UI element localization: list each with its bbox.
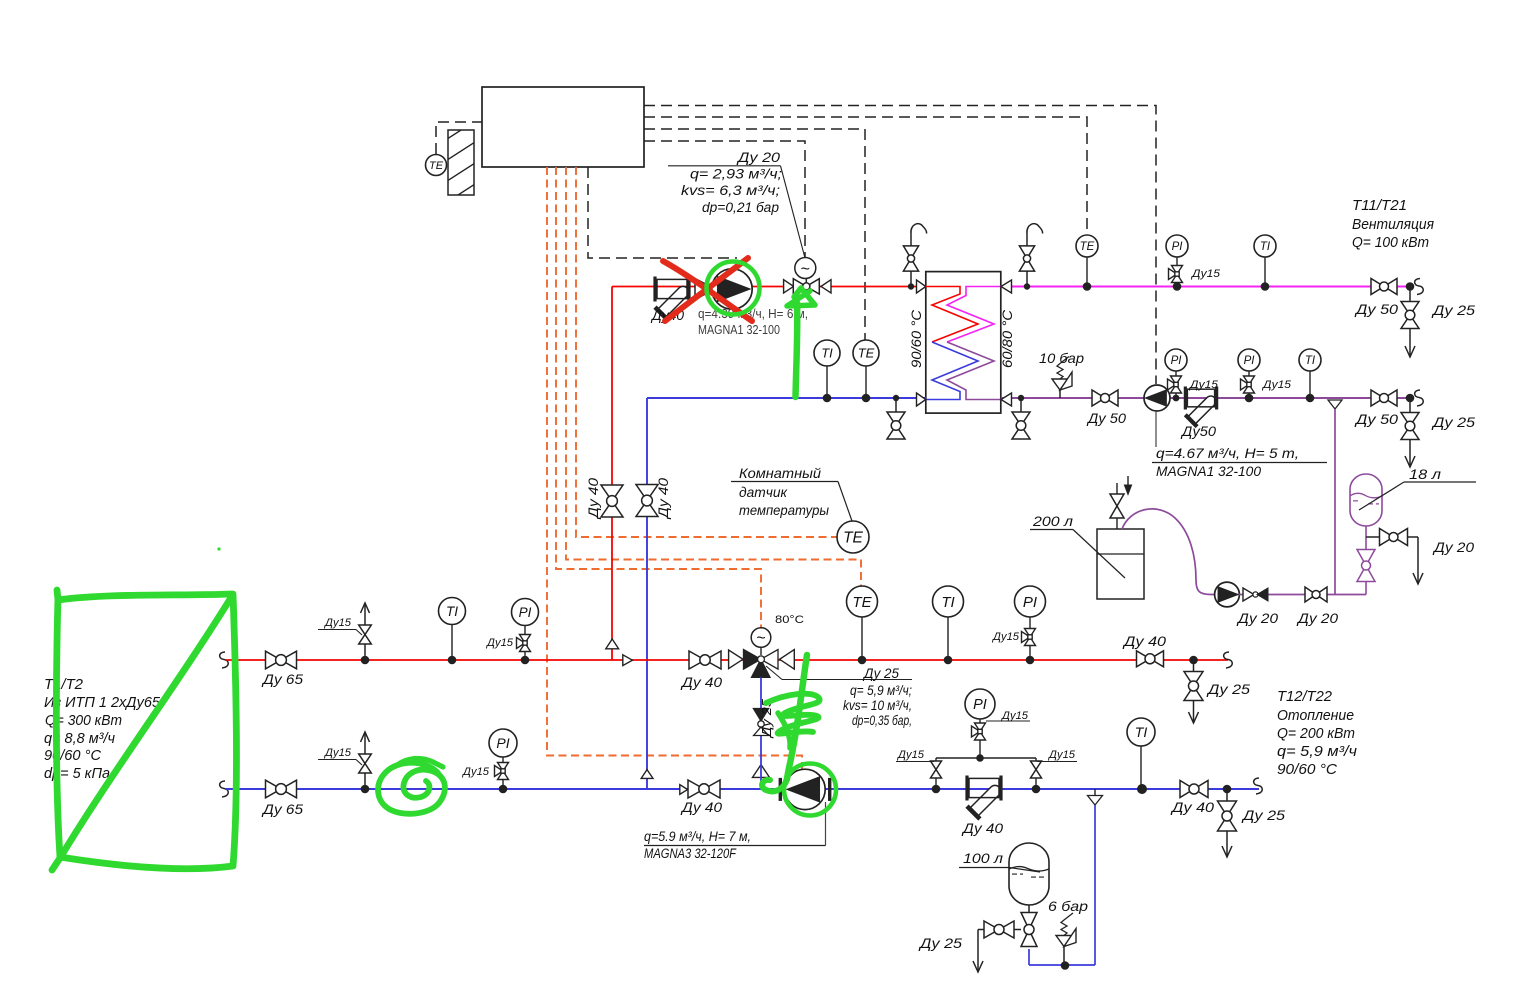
label kvs=6,3 (681, 183, 780, 198)
node PI blue (499, 785, 508, 794)
svg-text:q=4.67 м³/ч, H= 5 m,: q=4.67 м³/ч, H= 5 m, (1156, 445, 1299, 461)
label Du20 vessel drain (1432, 539, 1474, 555)
TI heating (933, 586, 964, 660)
label Du40 red right (1122, 633, 1167, 649)
control wire to vent TE (644, 117, 1087, 234)
svg-text:100 л: 100 л (963, 850, 1003, 866)
flow triangle blue riser (641, 770, 653, 779)
label Du40 blue riser (656, 477, 671, 520)
svg-text:Т1/Т2: Т1/Т2 (44, 676, 84, 693)
control wire to pump MAGNA1 (588, 167, 737, 258)
valve Du40 red riser (601, 485, 623, 517)
HX label 90/60 (909, 310, 924, 368)
annotation green scribble at 3way drop (762, 655, 820, 791)
node red end (1189, 656, 1198, 665)
room sensor TE (837, 521, 869, 553)
svg-text:PI: PI (496, 735, 509, 751)
svg-text:18 л: 18 л (1409, 466, 1441, 482)
svg-text:Ду 40: Ду 40 (656, 477, 671, 520)
strainer Du40 (crossed out) (655, 277, 689, 321)
svg-text:Ду 20: Ду 20 (736, 149, 781, 165)
vent Du15 blue (359, 732, 372, 789)
svg-text:Т12/Т22: Т12/Т22 (1277, 689, 1332, 705)
blue return riser (646, 398, 648, 789)
label Du40 (650, 308, 685, 323)
label MAGNA3 (644, 829, 826, 861)
control wire to return TE (644, 129, 865, 340)
svg-text:Из ИТП 1 2хДу65: Из ИТП 1 2хДу65 (44, 694, 161, 711)
node PI magenta (1173, 282, 1182, 291)
label Du40 strainer (961, 820, 1003, 836)
label Du20 makeup (1296, 610, 1338, 626)
label Du20 leader (668, 166, 805, 258)
two-way control valve Du20 (793, 279, 819, 294)
pump MAGNA1 vent return (1144, 385, 1170, 411)
label dp=0,21 (702, 200, 779, 215)
valve Du50 magenta (1371, 279, 1397, 295)
label Du15 PI heating (991, 631, 1020, 643)
label Du15 magenta PI (1190, 268, 1221, 280)
3way drop pipe (760, 677, 762, 789)
label T1/T2 block (44, 676, 161, 782)
drain riser blue (1094, 805, 1096, 965)
node red HX inlet (908, 283, 914, 289)
valve Du20 make-up (1305, 587, 1327, 602)
svg-text:~: ~ (756, 630, 765, 647)
svg-text:Ду 50: Ду 50 (1354, 301, 1399, 317)
svg-text:Ду 40: Ду 40 (680, 674, 722, 690)
svg-text:Ду 40: Ду 40 (586, 477, 601, 520)
svg-text:kvs= 6,3 м³/ч;: kvs= 6,3 м³/ч; (681, 183, 780, 198)
valve Du65 red (266, 651, 297, 669)
drain bottom pipe (1029, 964, 1095, 966)
label Du15 DP left (896, 749, 934, 762)
node TI magenta (1261, 282, 1270, 291)
expansion vessel 100l (1009, 843, 1049, 905)
svg-text:Ду15: Ду15 (1188, 379, 1219, 391)
svg-text:Ду 50: Ду 50 (1086, 411, 1127, 426)
svg-text:Ду 40: Ду 40 (1170, 799, 1215, 815)
outdoor temperature sensor TE (426, 155, 447, 176)
outdoor sensor wall bracket (hatched) (430, 114, 486, 234)
make-up riser purple (1334, 409, 1336, 595)
svg-text:Ду 50: Ду 50 (1354, 411, 1399, 427)
PI1 purple gauge (1165, 349, 1187, 398)
label Du65 blue (261, 801, 303, 817)
label 80C (775, 614, 804, 626)
label Du40 red riser (586, 477, 601, 520)
safety valve 10 bar (1052, 357, 1072, 399)
node TI blue right (1137, 784, 1147, 794)
pipe break red end (1224, 652, 1233, 668)
pump MAGNA3 leader (825, 802, 827, 846)
label Du15 PI1 purple (1188, 379, 1219, 391)
PI red left (512, 599, 539, 661)
HX secondary coil purple (947, 342, 1001, 400)
valve Du40 red right (1137, 651, 1164, 667)
svg-text:dp=0,35 бар,: dp=0,35 бар, (852, 713, 912, 728)
svg-text:Ду15: Ду15 (485, 637, 514, 649)
svg-text:Ду 25: Ду 25 (862, 666, 899, 681)
vent PI gauge (1166, 235, 1188, 287)
svg-text:PI: PI (1244, 355, 1256, 367)
label Du25 drop (759, 698, 774, 739)
signal wire 3 (3-way actuator) (556, 167, 761, 629)
label Du25 magenta drain (1431, 302, 1476, 318)
node DP left (932, 785, 941, 794)
heat exchanger body (926, 272, 1001, 414)
blue return pipe to HX (647, 397, 926, 399)
svg-text:TI: TI (821, 346, 833, 361)
annotation green blob on blue main (378, 759, 445, 814)
pump leader line (1155, 411, 1157, 447)
svg-text:Ду15: Ду15 (1190, 268, 1221, 280)
svg-text:10 бар: 10 бар (1039, 350, 1084, 366)
valve vertical at 18l (1357, 550, 1375, 582)
svg-text:MAGNA1 32-100: MAGNA1 32-100 (1156, 463, 1261, 479)
tank riser (1028, 949, 1030, 965)
valve Du40 blue riser (636, 485, 658, 517)
svg-text:q= 5,9 м³/ч: q= 5,9 м³/ч (1277, 744, 1358, 760)
pump MAGNA1 supply (crossed out) (712, 269, 752, 309)
signal wire 1 (room TE) (576, 167, 838, 537)
node TI purple (1306, 394, 1315, 403)
node TI red left (448, 656, 457, 665)
node magenta end (1406, 282, 1415, 291)
PI DP gauge (965, 689, 995, 758)
svg-text:PI: PI (1172, 241, 1184, 253)
pipe break red inlet (220, 652, 229, 668)
PI2 purple gauge (1238, 349, 1260, 398)
flow triangle into HX (red) (917, 280, 926, 293)
vessel drain branch (1366, 536, 1379, 538)
svg-text:TE: TE (1080, 241, 1095, 253)
label 6 bar (1048, 898, 1088, 914)
svg-text:Ду 25: Ду 25 (1431, 302, 1476, 318)
label T11/T21 (1352, 198, 1434, 251)
svg-text:TI: TI (941, 594, 954, 611)
vessel 100l stub (1028, 904, 1030, 913)
label Du40 blue right (1170, 799, 1215, 815)
svg-text:TE: TE (429, 160, 444, 172)
svg-text:Q= 200 кВт: Q= 200 кВт (1277, 726, 1355, 742)
svg-text:Комнатный: Комнатный (739, 465, 821, 481)
svg-text:Ду15: Ду15 (1047, 749, 1076, 761)
label Du25 3way (862, 666, 899, 681)
three-way valve body (744, 650, 779, 678)
annotation red X over pump (663, 258, 752, 321)
flow triangle after 3way (780, 650, 795, 670)
label Du50 magenta (1354, 301, 1399, 317)
pump MAGNA3 (780, 769, 829, 809)
DP left tap (931, 758, 942, 789)
label Du15 PI2 purple (1261, 379, 1292, 391)
make-up funnel on purple (1328, 400, 1342, 409)
vent Du15 red (359, 603, 372, 660)
svg-text:Т11/Т21: Т11/Т21 (1352, 198, 1407, 214)
label Du15 DP right (1037, 749, 1077, 762)
make-up pipe (1239, 594, 1366, 596)
annotation green speck (217, 547, 220, 550)
valve actuator (795, 258, 816, 279)
label Du40 red heating (680, 674, 722, 690)
svg-text:Ду50: Ду50 (1180, 423, 1216, 439)
svg-text:датчик: датчик (739, 484, 788, 500)
svg-text:Ду 20: Ду 20 (1432, 539, 1474, 555)
vessel drain outlet (1408, 537, 1424, 584)
make-up pump (1215, 582, 1240, 607)
node PI red (1026, 656, 1035, 665)
svg-text:PI: PI (1023, 594, 1037, 611)
node vent blue left (361, 785, 370, 794)
label Du25 tank drain (918, 935, 963, 951)
drain Du25 red right (1184, 660, 1203, 723)
node blue end (1223, 785, 1232, 794)
flow triangle out of HX (magenta) (1001, 280, 1012, 293)
svg-text:Ду 25: Ду 25 (1431, 414, 1476, 430)
DP manifold line (936, 754, 1036, 762)
svg-text:Ду15: Ду15 (461, 766, 490, 778)
TE heating sensor (847, 586, 878, 660)
TI purple gauge (1299, 349, 1321, 398)
TI red left (439, 598, 466, 661)
svg-text:80°С: 80°С (775, 614, 804, 626)
svg-text:200 л: 200 л (1032, 513, 1073, 529)
magenta vent supply pipe (1001, 286, 1410, 288)
label q=5,9 (850, 683, 912, 698)
label Du25 red right (1206, 681, 1251, 697)
control wire to valve actuator (644, 141, 805, 258)
svg-text:6 бар: 6 бар (1048, 898, 1088, 914)
label q=2,93 (690, 167, 782, 182)
red heating main (225, 659, 1228, 661)
DP right tap (1031, 758, 1042, 789)
drain Du25 blue right (1218, 789, 1237, 857)
HX secondary coil magenta (947, 287, 1001, 343)
svg-text:PI: PI (519, 605, 532, 620)
check triangle before pump (695, 279, 715, 300)
label Du25 blue right (1241, 807, 1286, 823)
flow triangle before control valve (784, 280, 794, 293)
svg-text:Ду15: Ду15 (323, 747, 352, 759)
pipe break blue end (1254, 778, 1263, 794)
signal wire 4 (pump MAGNA3) (547, 167, 802, 770)
label Du50 strainer (1180, 423, 1216, 439)
valve Du50 purple end (1371, 390, 1397, 406)
HX label 60/80 (1000, 310, 1015, 368)
flow triangle after control valve (821, 280, 831, 293)
node PI1 purple (1173, 395, 1180, 402)
controller unit (482, 87, 644, 167)
svg-text:Q= 100 кВт: Q= 100 кВт (1352, 235, 1429, 251)
pipe break blue inlet (220, 781, 229, 797)
svg-text:Ду15: Ду15 (323, 617, 352, 629)
label kvs=10 (843, 698, 912, 713)
flow triangle before Du40 blue (680, 785, 688, 795)
check valve Du20 (1243, 588, 1268, 601)
control wire to vent pump (644, 106, 1156, 385)
label Du20 check (1236, 610, 1278, 626)
label q=4.67 (1152, 445, 1327, 479)
tank 200l (1097, 529, 1144, 599)
node TE magenta (1083, 282, 1092, 291)
drain valve blue HX (887, 398, 905, 439)
TE on blue return (853, 340, 879, 398)
drain Du25 purple (1401, 398, 1419, 467)
svg-text:Отопление: Отопление (1277, 708, 1354, 724)
node vent red left (361, 656, 370, 665)
node drain blue (893, 395, 899, 401)
make-up inlet valve (1110, 483, 1124, 529)
valve Du40 blue right (1180, 781, 1208, 798)
wire TE to controller (436, 122, 482, 154)
svg-text:PI: PI (1171, 355, 1183, 367)
vent TE sensor (1076, 235, 1098, 287)
svg-text:kvs= 10 м³/ч,: kvs= 10 м³/ч, (843, 698, 912, 713)
valve Du65 blue (266, 780, 297, 798)
red supply riser (611, 287, 613, 661)
label Du15 vent red (318, 617, 362, 635)
drain Du25 magenta (1401, 287, 1419, 358)
valve Du20 vessel drain (1380, 529, 1408, 546)
node PI red left (521, 656, 530, 665)
svg-text:TI: TI (1135, 724, 1148, 740)
svg-text:~: ~ (801, 261, 810, 278)
air vent on red before HX (903, 224, 926, 287)
expansion vessel 18l (1350, 474, 1382, 526)
valve Du40 red heating (689, 651, 721, 669)
signal wire 2 (heating TE) (566, 167, 861, 587)
node TE blue (862, 394, 871, 403)
label Du65 red (261, 671, 303, 687)
svg-text:Ду 65: Ду 65 (261, 671, 303, 687)
purple vent return pipe (1001, 397, 1410, 399)
label Du25 3way leader (766, 666, 912, 680)
safety valve 6 bar (1056, 913, 1076, 966)
svg-text:TI: TI (446, 604, 458, 619)
svg-text:dp=0,21 бар: dp=0,21 бар (702, 200, 779, 215)
svg-text:Ду 40: Ду 40 (961, 820, 1003, 836)
drain funnel blue (1088, 789, 1103, 805)
svg-text:90/60 °С: 90/60 °С (909, 310, 924, 368)
make-up inlet arrow (1124, 476, 1131, 495)
label Du25 purple drain (1431, 414, 1476, 430)
svg-text:Вентиляция: Вентиляция (1352, 217, 1434, 233)
svg-text:60/80 °С: 60/80 °С (1000, 310, 1015, 368)
flow triangle before 3way (729, 650, 743, 669)
svg-text:Ду 65: Ду 65 (261, 801, 303, 817)
label Du15 vent blue (318, 747, 362, 765)
label Du15 DP top (986, 710, 1030, 722)
svg-text:Ду 20: Ду 20 (1296, 610, 1338, 626)
blue heating main (225, 788, 1259, 790)
valve Du25 tank drain (973, 921, 1021, 972)
svg-text:q= 5,9 м³/ч;: q= 5,9 м³/ч; (850, 683, 912, 698)
red supply pipe to HX (612, 286, 926, 288)
label Du40 blue heating (680, 799, 722, 815)
vessel 18l stub (1365, 525, 1367, 550)
vent TI thermometer (1254, 235, 1276, 287)
label T12/T22 (1277, 689, 1358, 778)
svg-text:Ду 25: Ду 25 (918, 935, 963, 951)
pump label (grey) (698, 307, 808, 337)
flow triangle on red main (623, 655, 633, 666)
valve Du40 blue heating (688, 780, 720, 798)
pipe break purple end (1415, 390, 1424, 406)
node magenta vent (1024, 283, 1030, 289)
HX primary coil blue (926, 342, 978, 400)
svg-text:Ду 40: Ду 40 (1122, 633, 1167, 649)
svg-text:90/60 °С: 90/60 °С (1277, 762, 1338, 778)
svg-text:температуры: температуры (739, 502, 830, 518)
flow triangle on red riser (606, 639, 619, 649)
make-up hose curve (1122, 509, 1215, 595)
svg-text:90/60 °С: 90/60 °С (44, 747, 101, 764)
label 200l (1030, 513, 1125, 578)
air vent on magenta (1019, 224, 1042, 287)
node TI red (944, 656, 953, 665)
check valve on drop (753, 709, 768, 736)
svg-text:Ду 25: Ду 25 (1206, 681, 1251, 697)
svg-text:TE: TE (852, 594, 872, 611)
svg-text:q=5.9 м³/ч, H= 7 м,: q=5.9 м³/ч, H= 7 м, (644, 829, 751, 844)
label 10 bar (1039, 350, 1084, 366)
node TE red (858, 656, 867, 665)
riser to vessel 18l (1365, 582, 1367, 595)
svg-text:TI: TI (1260, 241, 1271, 253)
node purple end (1406, 394, 1415, 403)
svg-text:Ду 20: Ду 20 (1236, 610, 1278, 626)
annotation green arrow at control valve (787, 288, 815, 397)
svg-text:PI: PI (973, 697, 987, 713)
PI heating (1015, 586, 1046, 660)
label Du15 PI blue (461, 766, 490, 778)
3way actuator (751, 628, 771, 655)
flow triangle out of HX (purple) (1001, 393, 1012, 406)
pipe break magenta end (1415, 279, 1424, 295)
svg-text:TE: TE (858, 346, 875, 361)
svg-text:Ду15: Ду15 (1261, 379, 1292, 391)
svg-text:MAGNA1 32-100: MAGNA1 32-100 (698, 323, 780, 337)
label room sensor (731, 465, 852, 521)
HX primary coil red (926, 287, 978, 343)
node TI blue (823, 394, 832, 403)
PI blue left (489, 729, 517, 789)
drain valve purple HX (1012, 398, 1030, 439)
label Du20 text (736, 149, 781, 165)
label Du50 purple end (1354, 411, 1399, 427)
svg-text:Ду15: Ду15 (1000, 710, 1029, 722)
svg-text:Ду15: Ду15 (896, 749, 925, 761)
svg-text:Ду15: Ду15 (991, 631, 1020, 643)
svg-text:TE: TE (843, 530, 863, 547)
annotation green rectangle T1/T2 (52, 590, 236, 870)
valve Du50 purple (1092, 390, 1118, 406)
TI heating return (1127, 718, 1155, 789)
node PI2 purple (1245, 394, 1254, 403)
valve vertical 100l (1021, 913, 1037, 947)
svg-text:TI: TI (1305, 355, 1316, 367)
annotation green circle bottom pump (784, 764, 836, 816)
annotation green circle top pump (707, 262, 760, 315)
svg-text:Ду 25: Ду 25 (1241, 807, 1286, 823)
label Du15 PI left (485, 637, 514, 649)
flow triangle into HX (blue) (917, 393, 926, 406)
node safety drain (1061, 961, 1070, 970)
label 100l (959, 850, 1040, 872)
svg-text:q= 2,93 м³/ч;: q= 2,93 м³/ч; (690, 167, 782, 182)
label dp=0,35 (852, 713, 912, 728)
